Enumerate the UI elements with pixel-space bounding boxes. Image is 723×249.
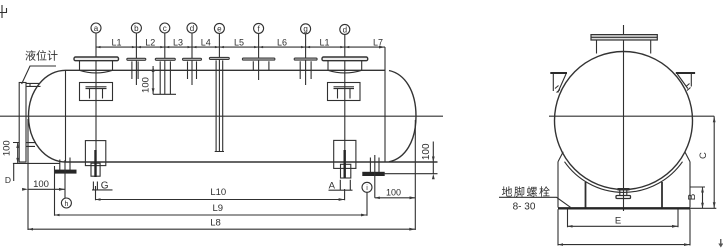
corner cursor mark bbox=[0, 5, 7, 18]
svg-text:L1: L1 bbox=[111, 37, 121, 47]
bottom-right nozzle i bbox=[364, 155, 384, 198]
level gauge bbox=[19, 83, 40, 163]
svg-text:L1: L1 bbox=[319, 37, 329, 47]
L9 dimension bbox=[55, 166, 368, 216]
internal box 1 bbox=[80, 83, 113, 101]
svg-text:L9: L9 bbox=[213, 203, 224, 214]
tick arrows on top dim line bbox=[96, 46, 385, 49]
bottom-left nozzle h bbox=[56, 158, 76, 199]
svg-text:100: 100 bbox=[386, 187, 401, 197]
nozzle d bbox=[183, 33, 202, 85]
100 dim right side (vertical) bbox=[384, 142, 438, 180]
manhole 2 (nozzle d2) bbox=[322, 34, 368, 150]
svg-text:L8: L8 bbox=[210, 218, 221, 229]
svg-text:地脚螺栓: 地脚螺栓 bbox=[502, 185, 552, 199]
centerline (common horizontal axis) bbox=[0, 115, 714, 117]
svg-text:D: D bbox=[5, 175, 11, 185]
tiny corner arrow bbox=[718, 239, 723, 248]
svg-text:d: d bbox=[343, 25, 347, 34]
svg-text:B: B bbox=[687, 193, 698, 200]
E dimension bbox=[568, 209, 679, 227]
top manhole (end view) bbox=[591, 35, 657, 40]
tank end circle bbox=[555, 52, 693, 190]
circle h bbox=[61, 198, 71, 208]
svg-text:8- 30: 8- 30 bbox=[513, 202, 536, 213]
tank shell bbox=[66, 70, 438, 162]
saddle base plate bbox=[558, 207, 690, 209]
svg-text:L3: L3 bbox=[173, 37, 183, 47]
svg-text:b: b bbox=[134, 24, 139, 33]
svg-text:L4: L4 bbox=[201, 37, 211, 47]
nozzle b bbox=[127, 33, 146, 85]
B dimension bbox=[687, 187, 705, 208]
100 dim right bottom (horizontal) bbox=[375, 187, 416, 199]
svg-text:液位计: 液位计 bbox=[25, 49, 58, 63]
svg-text:L10: L10 bbox=[210, 187, 226, 198]
saddle support (end view) bbox=[558, 152, 690, 208]
left head bbox=[29, 70, 66, 162]
L8 dimension bbox=[28, 119, 415, 231]
nozzle D stub + label bbox=[13, 164, 15, 182]
left 45 deg nozzle bbox=[550, 73, 567, 93]
svg-text:A: A bbox=[329, 180, 336, 191]
svg-text:L6: L6 bbox=[277, 37, 287, 47]
left weld seam bbox=[65, 70, 67, 162]
bottom overall dimension (right view) bbox=[558, 209, 690, 246]
svg-text:100: 100 bbox=[33, 179, 49, 190]
sump / bottom nozzle G bbox=[85, 141, 112, 192]
bottom drain nozzle (end view) bbox=[616, 189, 631, 199]
left side 100 dim (vertical) bbox=[2, 140, 60, 163]
svg-text:c: c bbox=[163, 24, 167, 33]
svg-text:100: 100 bbox=[421, 143, 432, 160]
nozzle id circles a-d bbox=[91, 23, 350, 34]
C dimension bbox=[690, 116, 716, 208]
svg-text:L5: L5 bbox=[234, 37, 244, 47]
svg-text:e: e bbox=[217, 24, 222, 33]
100 dim to nozzle h bbox=[22, 179, 65, 191]
vertical 100 dim (near nozzle c) bbox=[141, 66, 177, 94]
svg-text:d: d bbox=[190, 24, 194, 33]
nozzle e (dip tube) bbox=[209, 33, 229, 152]
right head bbox=[389, 71, 416, 162]
right 45 deg nozzle bbox=[676, 73, 695, 91]
svg-text:100: 100 bbox=[141, 77, 152, 93]
circle i bbox=[362, 182, 372, 192]
L10 dimension bbox=[96, 186, 345, 201]
leader to level gauge bbox=[22, 66, 56, 84]
nozzle c bbox=[155, 33, 175, 95]
internal box 2 bbox=[328, 83, 361, 101]
sump / bottom nozzle A bbox=[329, 140, 356, 191]
svg-text:a: a bbox=[94, 24, 99, 33]
svg-text:g: g bbox=[303, 25, 307, 34]
svg-text:L7: L7 bbox=[373, 37, 383, 47]
svg-text:100: 100 bbox=[2, 140, 13, 156]
svg-text:E: E bbox=[615, 215, 621, 226]
segment labels L1..L7 bbox=[111, 37, 383, 47]
svg-text:C: C bbox=[698, 152, 709, 159]
svg-text:G: G bbox=[101, 181, 109, 192]
nozzle g bbox=[294, 33, 317, 85]
top dimension line bbox=[96, 46, 385, 48]
svg-text:h: h bbox=[64, 201, 68, 208]
manhole 1 (nozzle a) bbox=[74, 33, 119, 150]
svg-text:L2: L2 bbox=[145, 37, 155, 47]
nozzle f bbox=[242, 33, 275, 80]
right weld seam (extends up to top dim line) bbox=[384, 47, 386, 162]
vertical centerline bbox=[623, 25, 625, 211]
